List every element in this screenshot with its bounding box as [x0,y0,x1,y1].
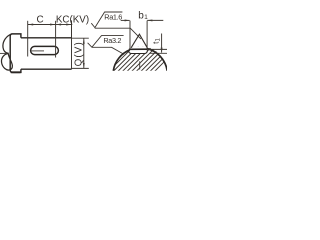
dimension KC(KV) line with arrows [56,24,72,26]
svg-text:1: 1 [144,14,148,21]
surface symbol Ra3.2 [88,36,124,48]
keyway notch white fill [130,40,148,53]
dimension Q(V) extension lines [72,38,89,68]
section view hatching [104,40,180,76]
collar bottom thick edge [11,71,21,73]
svg-text:Ra1.6: Ra1.6 [104,13,122,22]
leader from Ra1.6 to keyway flank [95,28,141,39]
dimension Q(V) line with arrows [83,38,85,68]
V projection lines (lambda) [131,34,147,48]
slot lower arc (stadium) [129,50,148,54]
dimension t1 extension lines [149,49,167,53]
surface symbol Ra1.6 [91,12,122,28]
shaft end edge [71,20,73,69]
centerline stub [0,52,7,54]
dimension b1 extension lines [130,21,147,49]
KC right extension (above shaft end) [71,21,73,38]
dimension t1 line with arrow [161,34,163,54]
leader from Ra3.2 to circle [92,47,124,54]
keyway bottom thick line [129,48,148,50]
dimension C extension lines [28,21,56,58]
break loop ellipse [1,53,12,70]
centerline dash in section [139,61,141,69]
section circle arc left piece [113,50,130,71]
slot inner line [31,50,44,52]
keyway slot (stadium) [31,46,59,54]
svg-text:Ra3.2: Ra3.2 [103,36,121,45]
svg-text:Q(V): Q(V) [74,41,85,66]
svg-text:KC(KV): KC(KV) [56,15,89,26]
section circle arc right piece [147,49,167,71]
dimension C line with arrows [28,24,56,26]
break curve (S) [3,35,10,54]
shaft side view: collar outline [10,34,21,73]
svg-text:1: 1 [156,38,162,42]
shaft main body [21,38,72,69]
svg-text:C: C [37,15,44,26]
dimension b1 line with outside arrows [121,19,164,21]
label t1 rotated [152,38,162,44]
